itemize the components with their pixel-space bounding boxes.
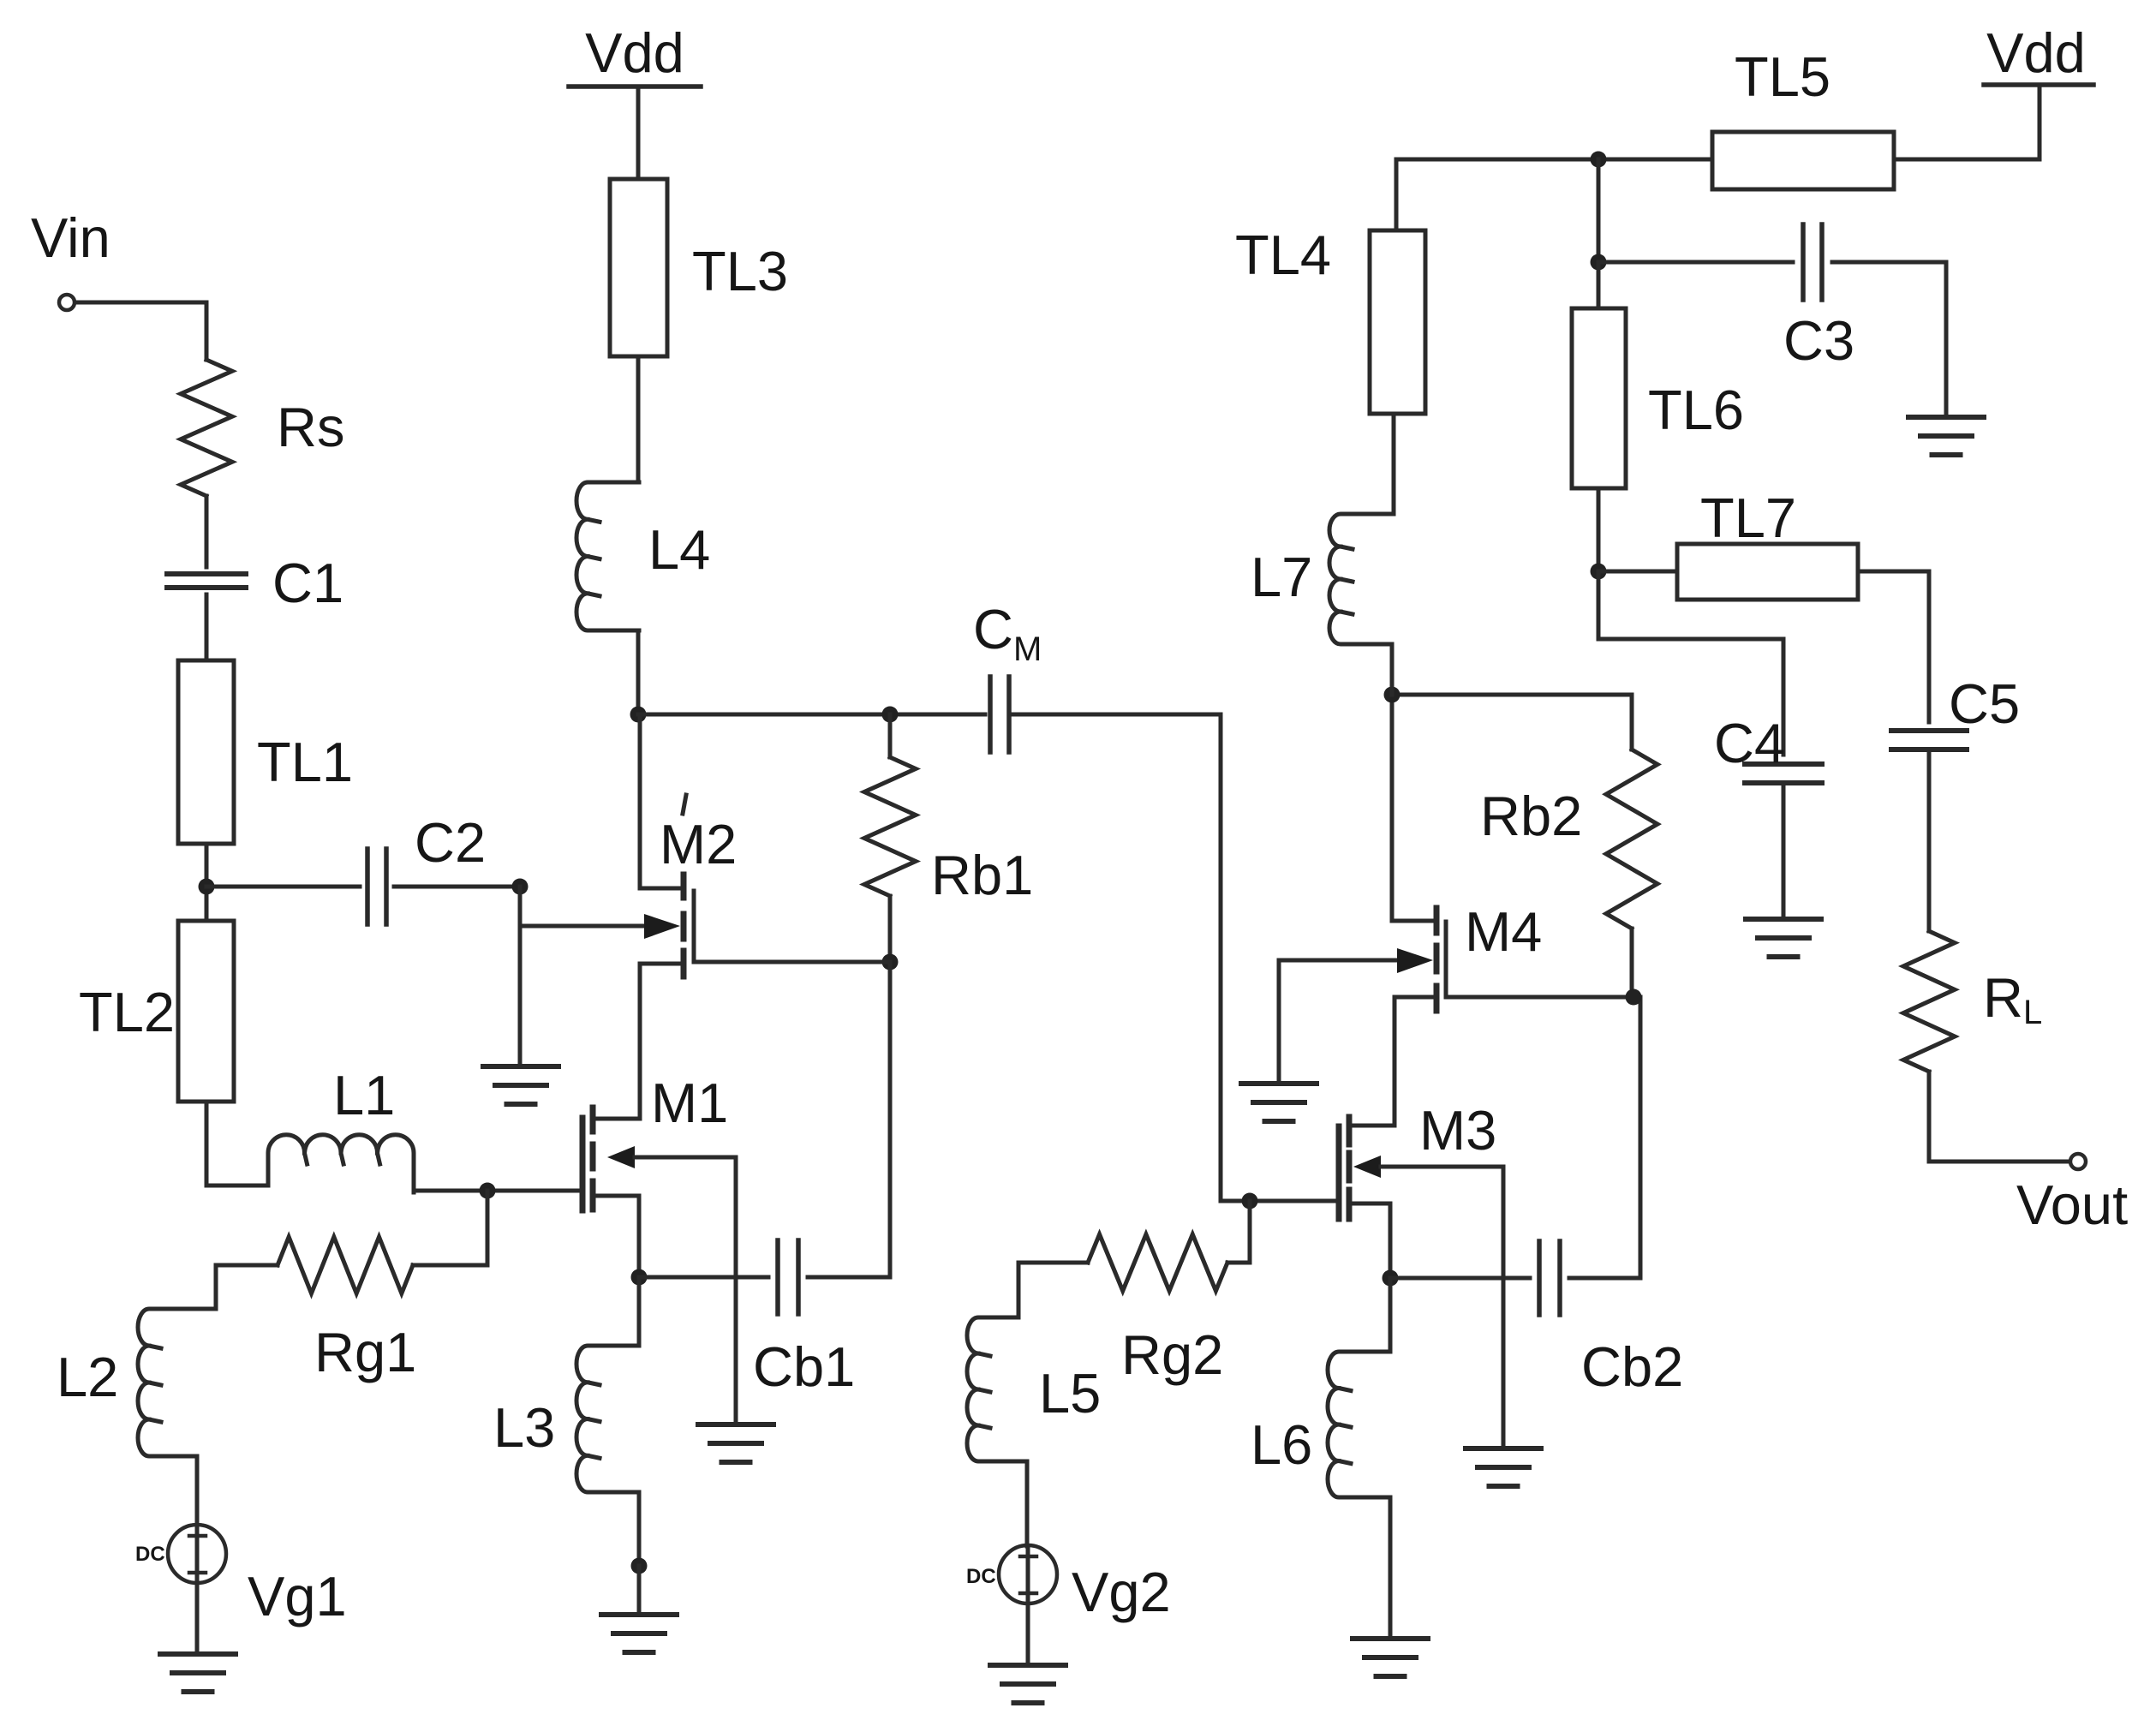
svg-text:Rg1: Rg1 — [314, 1321, 416, 1383]
svg-text:M3: M3 — [1419, 1099, 1496, 1162]
svg-text:C1: C1 — [272, 552, 343, 614]
svg-text:Vdd: Vdd — [1986, 21, 2086, 84]
svg-text:Vout: Vout — [2016, 1174, 2128, 1236]
svg-text:Vg2: Vg2 — [1072, 1561, 1171, 1623]
svg-text:C2: C2 — [415, 811, 486, 874]
svg-text:DC: DC — [135, 1543, 165, 1566]
svg-text:TL3: TL3 — [692, 240, 788, 302]
svg-text:C4: C4 — [1714, 712, 1785, 774]
svg-text:TL7: TL7 — [1700, 487, 1796, 549]
svg-text:Vdd: Vdd — [585, 21, 684, 84]
svg-text:L4: L4 — [648, 518, 710, 581]
svg-text:TL4: TL4 — [1235, 224, 1331, 286]
svg-text:DC: DC — [966, 1565, 996, 1588]
svg-text:TL1: TL1 — [257, 731, 353, 793]
svg-text:Cb2: Cb2 — [1581, 1335, 1683, 1398]
svg-text:L1: L1 — [333, 1064, 395, 1126]
svg-text:RL: RL — [1983, 966, 2042, 1031]
svg-text:Rb1: Rb1 — [931, 844, 1033, 906]
svg-text:M1: M1 — [651, 1072, 728, 1134]
svg-text:L6: L6 — [1251, 1413, 1312, 1476]
svg-text:Rs: Rs — [277, 396, 344, 458]
svg-text:L5: L5 — [1039, 1362, 1101, 1424]
svg-text:CM: CM — [973, 598, 1042, 668]
svg-text:L2: L2 — [57, 1346, 118, 1408]
svg-text:TL6: TL6 — [1648, 379, 1744, 441]
svg-text:M4: M4 — [1465, 900, 1542, 963]
svg-text:L3: L3 — [493, 1396, 555, 1459]
svg-text:TL2: TL2 — [79, 981, 175, 1043]
svg-text:Cb1: Cb1 — [753, 1335, 855, 1398]
svg-text:Vin: Vin — [31, 206, 110, 269]
svg-text:Rg2: Rg2 — [1121, 1323, 1223, 1386]
svg-text:C5: C5 — [1949, 672, 2020, 735]
svg-text:Rb2: Rb2 — [1480, 785, 1582, 847]
svg-text:Vg1: Vg1 — [248, 1565, 347, 1627]
svg-text:L7: L7 — [1251, 546, 1312, 608]
svg-text:M2: M2 — [660, 813, 737, 875]
svg-text:C3: C3 — [1783, 309, 1854, 372]
svg-text:TL5: TL5 — [1735, 45, 1831, 108]
